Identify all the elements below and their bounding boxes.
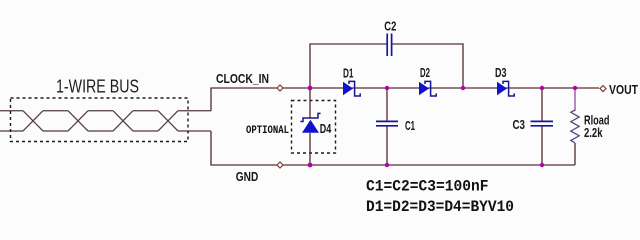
svg-text:D1: D1 xyxy=(343,66,354,81)
svg-text:VOUT: VOUT xyxy=(609,82,638,97)
svg-text:C2: C2 xyxy=(384,19,396,34)
svg-text:GND: GND xyxy=(236,169,258,184)
svg-text:C1: C1 xyxy=(405,118,415,133)
svg-text:C3: C3 xyxy=(513,117,526,132)
svg-text:D2: D2 xyxy=(420,65,430,80)
svg-text:D4: D4 xyxy=(320,121,332,136)
svg-text:1-WIRE BUS: 1-WIRE BUS xyxy=(56,77,139,97)
svg-text:D3: D3 xyxy=(495,65,507,80)
svg-text:D1=D2=D3=D4=BYV10: D1=D2=D3=D4=BYV10 xyxy=(366,198,514,216)
svg-text:C1=C2=C3=100nF: C1=C2=C3=100nF xyxy=(366,178,489,196)
svg-text:OPTIONAL: OPTIONAL xyxy=(246,125,289,137)
svg-text:2.2k: 2.2k xyxy=(584,125,603,140)
svg-text:CLOCK_IN: CLOCK_IN xyxy=(216,71,269,86)
